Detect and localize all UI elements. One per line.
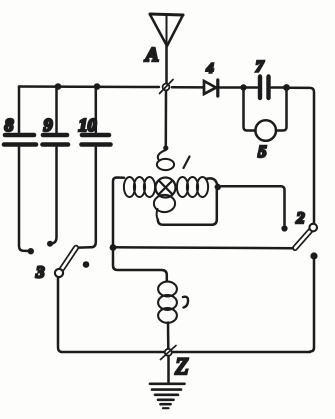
- capacitor C9 bottom wire to contact: [53, 148, 57, 244]
- detachable connection X1 (antenna jack): [160, 80, 174, 94]
- svg-text:8: 8: [5, 115, 14, 135]
- coil L1 right lead to junction: [206, 178, 217, 184]
- wire switch 3 pivot down to bottom bus: [58, 278, 62, 353]
- svg-text:5: 5: [258, 142, 267, 161]
- detector diode 4: [204, 80, 218, 96]
- wire phones branch right leg: [276, 91, 287, 131]
- wire ground lead: [167, 356, 170, 383]
- coil 1 entry dot from antenna: [163, 145, 168, 150]
- junction dot coil 1 right end: [215, 184, 221, 190]
- capacitor C7: [260, 77, 269, 99]
- wire top bus middle section: [172, 86, 203, 89]
- svg-text:3: 3: [35, 263, 45, 282]
- svg-text:4: 4: [206, 62, 214, 77]
- svg-text:9: 9: [44, 115, 53, 135]
- wire bus coil1-left to switch 2 lever: [113, 246, 293, 249]
- label 1 (slash digit): [184, 157, 190, 169]
- label 6 (hook mark): [183, 297, 188, 308]
- wire top bus left section: [19, 85, 159, 88]
- coil L1 left lead: [113, 178, 124, 246]
- phones 5: [255, 120, 276, 141]
- wire right side down to bottom bus: [310, 259, 314, 352]
- vario coil upper loop: [158, 150, 166, 160]
- wire diode to node: [219, 86, 241, 89]
- capacitor C10 top wire: [95, 87, 98, 133]
- coil L1 right loops: [177, 177, 208, 197]
- switch 2 pivot circle: [309, 224, 317, 232]
- wire node to capacitor 7: [246, 86, 257, 89]
- antenna: [150, 14, 183, 46]
- coil L6 loops: [158, 282, 177, 323]
- switch 3 pivot circle: [55, 269, 63, 277]
- detachable connection X2 (ground jack): [161, 346, 177, 360]
- capacitor C8: [4, 135, 36, 145]
- wire vario coil exit to U-link: [157, 209, 158, 220]
- wire bottom bus: [62, 351, 310, 354]
- capacitor C8 bottom wire to contact: [19, 148, 28, 252]
- svg-text:10: 10: [79, 115, 97, 135]
- wire coil 1 right end to switch 2 upper contact: [221, 186, 285, 225]
- ground symbol: [150, 384, 185, 408]
- junction dot at capacitor 10 top: [94, 83, 101, 90]
- wire U-link from vario coil bottom to coil 1 right end: [158, 190, 217, 225]
- capacitor C10 bottom wire to switch 3 throw: [79, 148, 96, 248]
- junction dot at capacitor 9 top: [55, 83, 62, 90]
- svg-text:A: A: [144, 44, 159, 66]
- switch 3 contact dot b: [47, 241, 53, 247]
- vario coil lower loop: [154, 195, 175, 212]
- capacitor C8 top wire: [18, 87, 21, 133]
- vario crossing circle: [156, 178, 176, 198]
- capacitor C10: [82, 135, 111, 145]
- wire capacitor 7 to right node: [272, 86, 285, 89]
- svg-text:2: 2: [296, 210, 305, 227]
- wire antenna lead down to top bus: [165, 46, 168, 83]
- wire antenna lead below jack down to coil: [165, 91, 168, 146]
- switch 3 lever: [62, 248, 77, 270]
- wire coil L6 bottom to ground jack: [167, 323, 170, 349]
- node dot right of capacitor 7: [283, 84, 290, 91]
- wire right node to top-right corner and down: [289, 88, 314, 223]
- node dot left of capacitor 7: [240, 84, 246, 90]
- coil L1 left loops: [124, 177, 155, 197]
- junction dot bus left end: [110, 244, 117, 251]
- wire phones branch left leg: [244, 91, 256, 131]
- switch 2 lever: [295, 231, 310, 248]
- switch 2 upper contact dot: [281, 225, 287, 231]
- capacitor C9 top wire: [55, 87, 58, 133]
- switch 3 spare contact dot: [83, 261, 90, 268]
- switch 3 contact dot a: [28, 248, 34, 254]
- svg-text:Z: Z: [175, 354, 188, 379]
- capacitor C9: [43, 135, 69, 145]
- switch 2 lower contact dot: [310, 252, 317, 259]
- wire junction to coil 6 feed: [113, 250, 167, 281]
- svg-text:7: 7: [256, 59, 265, 76]
